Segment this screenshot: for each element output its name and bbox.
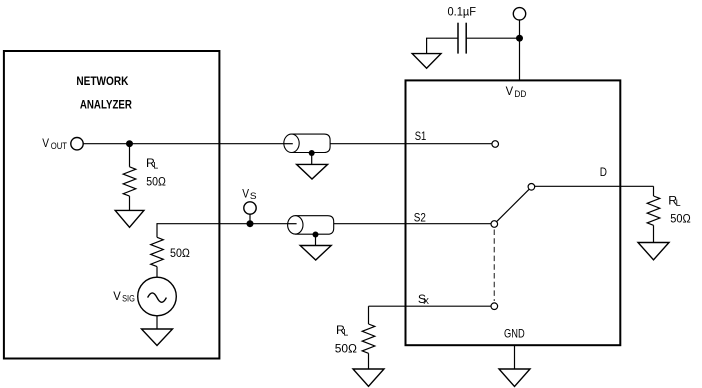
node coax1 shield: [309, 150, 315, 156]
svg-text:SIG: SIG: [122, 294, 135, 304]
svg-text:L: L: [343, 327, 348, 337]
svg-text:X: X: [423, 296, 429, 306]
wire coax2 to S2: [334, 223, 491, 225]
wire into coax2 ellipse: [288, 223, 297, 225]
resistor RL right: [647, 196, 660, 243]
wire coax2 shield stem: [315, 235, 317, 246]
resistor RL left: [123, 144, 136, 211]
svg-text:ANALYZER: ANALYZER: [80, 97, 132, 111]
node junction at VS: [247, 220, 254, 227]
wire cap to VDD node: [466, 37, 519, 39]
svg-text:50Ω: 50Ω: [335, 342, 357, 356]
node coax2 shield: [313, 232, 319, 238]
svg-text:50Ω: 50Ω: [670, 211, 691, 225]
contact Sx: [491, 303, 498, 310]
svg-text:DD: DD: [514, 89, 526, 99]
switch box: [406, 80, 621, 345]
svg-text:50Ω: 50Ω: [170, 246, 190, 260]
svg-text:V: V: [42, 136, 49, 150]
ground RL bottom: [353, 369, 384, 386]
wire VS stem: [249, 214, 251, 224]
svg-text:L: L: [153, 161, 158, 171]
wire D down to RL right: [653, 186, 655, 196]
contact S2: [491, 221, 498, 228]
ground capacitor: [412, 54, 441, 69]
coax 2 body: [288, 216, 334, 235]
ground RL right: [638, 243, 669, 260]
svg-text:0.1µF: 0.1µF: [448, 5, 477, 19]
svg-text:V: V: [506, 84, 514, 98]
wire D: [535, 185, 654, 187]
resistor RL bottom: [362, 324, 375, 369]
wire Sx: [369, 305, 492, 307]
wire into coax1 ellipse: [284, 143, 293, 145]
wire VS horizontal: [157, 223, 288, 225]
svg-text:NETWORK: NETWORK: [76, 74, 128, 88]
svg-text:L: L: [676, 198, 681, 208]
node junction at RL: [126, 140, 133, 147]
capacitor C 0.1uF: [458, 23, 466, 54]
svg-text:50Ω: 50Ω: [146, 175, 166, 189]
contact S1: [492, 141, 499, 148]
ground coax2: [300, 246, 331, 261]
wire coax1 to S1: [330, 143, 492, 145]
coax 1 body: [284, 134, 330, 152]
svg-text:S: S: [250, 191, 257, 201]
svg-text:GND: GND: [504, 326, 525, 340]
dashed line S2 to Sx: [493, 230, 495, 302]
svg-text:S2: S2: [414, 211, 426, 225]
svg-text:OUT: OUT: [51, 141, 68, 151]
network analyzer box: [4, 51, 220, 359]
wire down to source resistor: [156, 223, 158, 237]
wire VSIG to ground: [156, 316, 158, 329]
ground coax1: [297, 164, 328, 179]
wire cap to ground: [427, 38, 458, 53]
source VSIG: [138, 277, 177, 316]
terminal VDD: [513, 8, 525, 20]
resistor 50 ohm source: [151, 237, 164, 277]
switch arm: [497, 189, 530, 221]
wire VOUT to coax1: [83, 143, 284, 145]
svg-text:D: D: [600, 166, 607, 179]
wire coax1 shield stem: [311, 153, 313, 164]
node junction VDD: [516, 35, 523, 42]
svg-text:S1: S1: [415, 129, 427, 143]
svg-text:V: V: [113, 289, 121, 303]
terminal VOUT: [71, 138, 83, 150]
wire GND stem: [514, 345, 516, 369]
terminal VS: [244, 202, 256, 214]
pole circle: [528, 184, 535, 191]
wire VDD stem: [519, 20, 521, 80]
svg-text:V: V: [242, 186, 249, 200]
ground below RL left: [115, 210, 144, 227]
ground below VSIG: [142, 329, 173, 346]
wire Sx down to RL bottom: [368, 306, 370, 324]
ground GND: [499, 369, 530, 387]
